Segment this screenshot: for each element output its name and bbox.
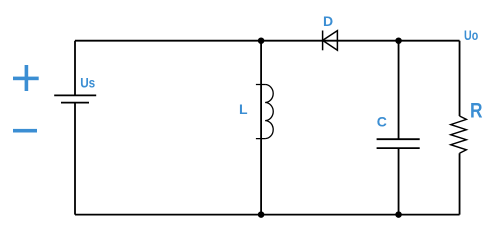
svg-text:L: L <box>239 101 248 117</box>
svg-text:R: R <box>470 99 483 122</box>
svg-text:D: D <box>323 13 333 29</box>
svg-text:C: C <box>377 113 387 129</box>
svg-text:Us: Us <box>80 75 95 91</box>
svg-text:Uo: Uo <box>464 27 478 43</box>
